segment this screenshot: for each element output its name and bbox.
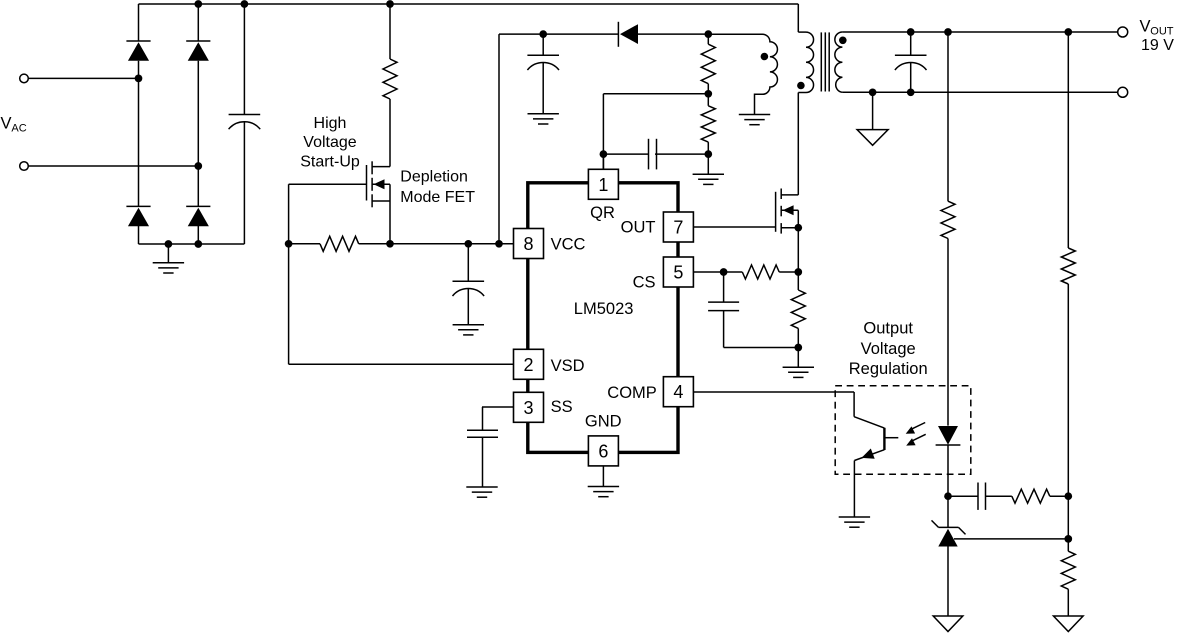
transistor Q2 power MOSFET <box>775 192 777 232</box>
wire QR tap horizontal <box>603 93 708 95</box>
svg-text:2: 2 <box>523 355 533 375</box>
capacitor C5 CS filter <box>723 272 725 302</box>
node U1 pin 4 COMP <box>663 377 693 407</box>
wire AC input 1 to bridge <box>28 77 138 79</box>
resistor R3 QR upper <box>707 34 709 44</box>
ground C2 <box>453 324 484 326</box>
wire transformer core <box>820 32 822 91</box>
resistor R8 feedback <box>1012 489 1050 503</box>
resistor R4 QR lower <box>707 94 709 106</box>
diode DZ zener TL431 <box>939 526 959 528</box>
ground secondary arrow <box>857 130 888 146</box>
diode D4 bridge lower-right <box>186 205 210 207</box>
capacitor C6 soft-start <box>482 407 484 430</box>
svg-text:1: 1 <box>598 175 608 195</box>
node AC input terminal 1 <box>20 74 29 83</box>
wire secondary bottom rail <box>842 91 1117 93</box>
node primary phase dot <box>797 82 805 90</box>
ground pin6 <box>588 486 619 488</box>
node U1 pin 8 VCC <box>514 229 544 259</box>
ground right chain arrow <box>1054 616 1084 632</box>
ground aux winding <box>739 114 770 116</box>
node U1 pin 7 OUT <box>663 212 693 242</box>
wire bridge left leg upper <box>138 4 140 41</box>
node AC input terminal 2 <box>20 162 29 171</box>
node VCC row / C2 <box>464 240 472 248</box>
svg-text:8: 8 <box>523 234 533 254</box>
node U1 pin 1 QR <box>588 169 618 199</box>
wire COMP down <box>853 392 855 417</box>
svg-text:Depletion: Depletion <box>400 169 468 186</box>
wire QR divider to ground <box>707 154 709 174</box>
wire right chain top <box>1067 32 1069 248</box>
svg-text:7: 7 <box>673 218 683 238</box>
node U1 pin 6 GND <box>588 436 618 466</box>
ground bridge <box>153 262 184 264</box>
node top rail / right chain <box>1064 28 1072 36</box>
node top rail / left chain <box>944 28 952 36</box>
svg-text:Mode FET: Mode FET <box>400 189 475 206</box>
wire secondary top rail <box>842 31 1117 33</box>
node ref / right chain <box>1064 535 1072 543</box>
node Q2 source <box>794 224 802 232</box>
diode D6 opto LED <box>938 426 958 445</box>
node QR divider mid <box>704 90 712 98</box>
wire bridge right leg lower <box>197 226 199 244</box>
wire VSD <box>289 363 514 365</box>
ground opto emitter <box>839 516 870 518</box>
svg-text:High: High <box>314 115 347 132</box>
svg-text:5: 5 <box>673 263 683 283</box>
wire bridge right leg upper <box>197 4 199 41</box>
diode D1 bridge upper-left <box>126 40 150 42</box>
svg-text:Regulation: Regulation <box>849 360 928 378</box>
diode D3 bridge lower-left <box>126 205 150 207</box>
diode D2 bridge upper-right <box>186 40 210 42</box>
resistor R10 divider lower <box>1061 551 1075 589</box>
ground sense <box>783 366 814 368</box>
node junction input1/bridge left leg <box>135 75 143 83</box>
wire C5 bottom to sense <box>724 347 799 349</box>
wire Q1 gate left <box>289 183 367 185</box>
transistor Q1 depletion FET <box>366 165 368 201</box>
capacitor C8 output <box>910 32 912 55</box>
wire zener to ground <box>947 547 949 617</box>
svg-text:V: V <box>1 115 12 133</box>
resistor R2 gate-VCC <box>320 236 359 251</box>
wire COMP <box>693 391 854 393</box>
ground C3 <box>528 113 559 115</box>
wire secondary ground stub <box>872 92 874 129</box>
node secondary phase dot <box>839 37 847 45</box>
svg-text:OUT: OUT <box>621 218 656 236</box>
wire SS <box>482 406 514 408</box>
wire opto light arrow 2 <box>910 434 926 442</box>
capacitor C4 QR filter <box>603 153 649 155</box>
resistor R1 startup <box>389 4 391 59</box>
node QR pin node <box>600 150 608 158</box>
wire AC input 2 to bridge <box>28 165 198 167</box>
svg-text:AC: AC <box>11 123 26 135</box>
diode D5 aux rectifier <box>617 22 619 47</box>
node gate/VSD tee <box>285 240 293 248</box>
svg-text:VCC: VCC <box>551 235 586 253</box>
wire CS pin stub <box>693 271 723 273</box>
node bottom rail / bridge right leg <box>194 240 202 248</box>
svg-text:LM5023: LM5023 <box>574 300 634 318</box>
svg-text:QR: QR <box>590 204 615 222</box>
wire QR tap vertical <box>602 94 604 170</box>
op-amp U1 LM5023 outline <box>528 183 678 453</box>
ground QR divider <box>693 173 724 175</box>
node top rail / bridge right leg <box>194 0 202 8</box>
node U1 pin 2 VSD <box>514 349 544 379</box>
capacitor C3 aux store <box>542 34 544 55</box>
node top rail / startup resistor <box>386 0 394 8</box>
node output terminal - <box>1118 87 1128 97</box>
node CS node <box>720 268 728 276</box>
svg-text:Voltage: Voltage <box>303 134 356 151</box>
inductor L1 aux winding <box>708 34 777 114</box>
wire left chain top <box>947 32 949 201</box>
svg-text:SS: SS <box>551 398 573 416</box>
resistor R6 current sense <box>791 290 805 328</box>
svg-text:OUT: OUT <box>1150 25 1174 37</box>
inductor T1 secondary winding <box>835 32 843 92</box>
svg-text:6: 6 <box>598 441 608 461</box>
svg-text:COMP: COMP <box>607 384 657 402</box>
transistor U2 optocoupler phototransistor <box>854 417 884 428</box>
node U1 pin 3 SS <box>514 392 544 422</box>
wire aux feed vertical <box>498 34 500 244</box>
svg-text:Voltage: Voltage <box>861 340 916 358</box>
wire VCC feed line right <box>638 33 708 35</box>
wire right chain bottom <box>1067 589 1069 616</box>
svg-text:Output: Output <box>863 320 913 338</box>
wire VCC feed line left <box>499 33 618 35</box>
svg-text:4: 4 <box>673 382 683 402</box>
wire opto emitter down <box>853 461 855 518</box>
node R5 / source <box>794 268 802 276</box>
resistor R7 LED bias <box>941 201 955 238</box>
node aux winding phase dot <box>761 53 769 61</box>
wire right chain middle <box>1067 284 1069 551</box>
wire VCC row right <box>359 243 514 245</box>
svg-text:19 V: 19 V <box>1141 37 1174 54</box>
node VCC row / aux feed <box>495 240 503 248</box>
wire zener ref <box>954 538 1068 540</box>
wire pin1 stub <box>602 154 604 169</box>
resistor R5 CS filter <box>724 271 743 273</box>
wire Q2 source down <box>797 210 799 290</box>
wire left chain to LED <box>947 239 949 426</box>
node feed / C3 <box>539 30 547 38</box>
wire gate node down to VSD <box>288 184 290 364</box>
svg-text:Start-Up: Start-Up <box>300 154 360 171</box>
wire OUT gate <box>693 226 775 228</box>
svg-text:3: 3 <box>523 398 533 418</box>
svg-text:VSD: VSD <box>551 357 585 375</box>
node feedback node <box>944 492 952 500</box>
capacitor C2 VCC <box>467 244 469 281</box>
wire opto light arrow 1 <box>910 423 926 431</box>
capacitor C1 bulk input <box>243 4 245 115</box>
wire bridge left leg middle <box>138 61 140 207</box>
node feed / divider <box>704 30 712 38</box>
svg-text:CS: CS <box>633 274 656 292</box>
wire LED to zener <box>947 445 949 527</box>
node U1 pin 5 CS <box>663 257 693 287</box>
wire top rail <box>139 3 799 5</box>
capacitor C7 feedback <box>948 495 978 497</box>
wire pin6 stub <box>602 466 604 487</box>
svg-text:GND: GND <box>585 413 622 431</box>
wire VCC row left <box>289 243 320 245</box>
node optocoupler dashed box <box>835 386 971 475</box>
node output terminal + <box>1118 27 1128 37</box>
ground C6 <box>466 486 497 488</box>
resistor R9 divider upper <box>1061 248 1075 284</box>
inductor T1 primary winding <box>797 4 799 32</box>
node QR divider bottom <box>704 150 712 158</box>
node bottom rail / ground tap <box>165 240 173 248</box>
ground zener arrow <box>933 616 963 632</box>
node sense bottom <box>794 344 802 352</box>
svg-text:V: V <box>1140 17 1151 35</box>
node top rail / output cap <box>907 28 915 36</box>
node VCC row / Q1 source <box>386 240 394 248</box>
node bottom rail / sec ground <box>869 88 877 96</box>
wire bridge bottom rail <box>139 243 245 245</box>
wire bridge left leg lower <box>138 226 140 244</box>
node feedback / right chain <box>1064 492 1072 500</box>
wire ground stub bridge <box>167 244 169 263</box>
wire Q1 source down <box>389 184 391 244</box>
node junction input2/bridge right leg <box>194 162 202 170</box>
node top rail / bulk cap <box>241 0 249 8</box>
wire bridge right leg middle <box>197 61 199 207</box>
node bottom rail / output cap <box>907 88 915 96</box>
